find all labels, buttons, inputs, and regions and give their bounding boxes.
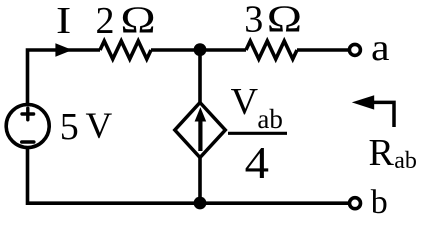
terminal b open circle: [350, 198, 361, 209]
V1 plus sign: [22, 108, 34, 120]
resistor R2 3 ohm zigzag: [246, 41, 297, 59]
wire: 3-ohm resistor to terminal a: [297, 48, 348, 52]
svg-text:ab: ab: [394, 148, 417, 174]
svg-text:5: 5: [60, 106, 79, 148]
svg-text:b: b: [371, 184, 388, 221]
wire: source bottom lead and bottom rail to terminal b: [28, 147, 349, 203]
Rab measurement arrow (bent, pointing left): [372, 102, 394, 127]
terminal a open circle: [349, 44, 360, 55]
node A junction dot (top): [194, 43, 207, 56]
svg-text:2: 2: [96, 0, 115, 42]
svg-text:ab: ab: [257, 104, 282, 134]
svg-text:4: 4: [245, 138, 269, 188]
svg-text:I: I: [56, 1, 71, 43]
svg-text:V: V: [86, 106, 113, 147]
svg-text:R: R: [369, 132, 395, 174]
svg-text:a: a: [371, 26, 390, 69]
resistor R1 2 ohm zigzag: [100, 41, 151, 59]
dependent current source U1 diamond: [175, 103, 226, 158]
svg-text:3: 3: [244, 0, 263, 40]
fraction bar of Vab/4: [228, 132, 287, 135]
wire: source top lead, top-left corner, to 2-ohm resistor: [28, 50, 101, 105]
wire: 2-ohm to 3-ohm through node A: [151, 48, 246, 52]
svg-text:V: V: [231, 81, 259, 123]
node B junction dot (bottom): [194, 197, 207, 210]
current arrow I on top wire: [55, 43, 72, 57]
wire: node A down to dependent source: [198, 50, 202, 103]
dependent source internal arrow: [198, 118, 202, 151]
svg-text:Ω: Ω: [267, 0, 302, 40]
V1 minus sign: [22, 140, 34, 144]
voltage source V1 circle: [6, 105, 49, 148]
wire: dependent source to bottom node: [198, 157, 202, 203]
svg-text:Ω: Ω: [120, 0, 155, 41]
